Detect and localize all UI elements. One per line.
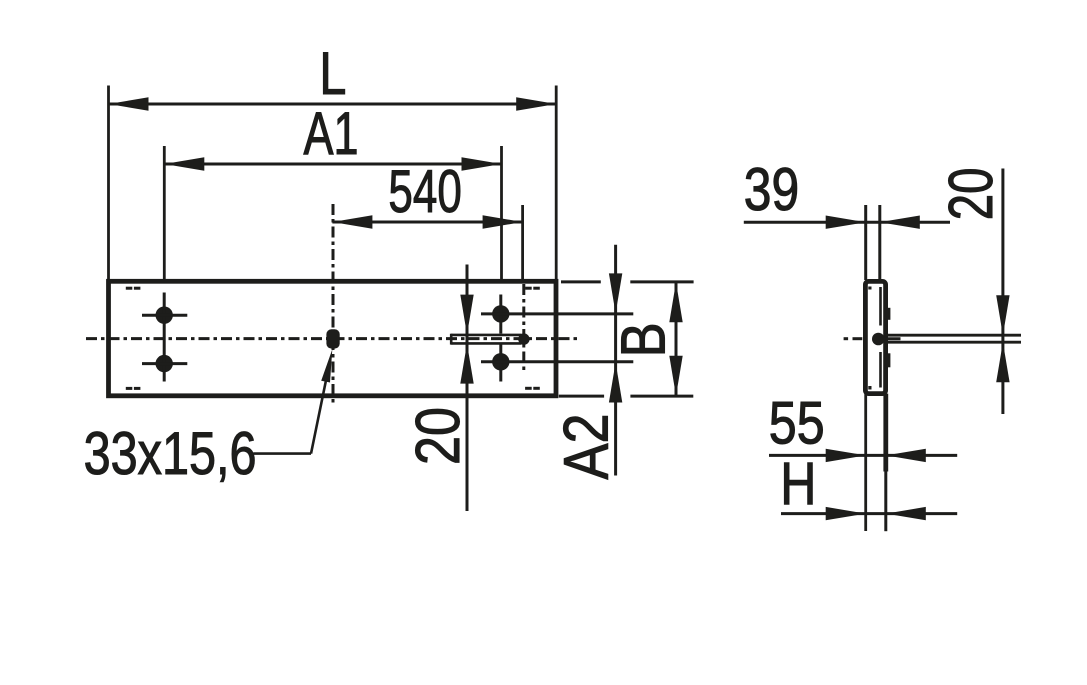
side inner edge lower	[879, 352, 882, 388]
crosshair bottom-right hole horizontal extended	[481, 360, 633, 363]
crosshair bottom-left hole horizontal	[142, 362, 187, 365]
side nut bump upper	[885, 308, 890, 320]
side slot edge lower	[884, 341, 1021, 344]
vertical centerline slot center	[332, 204, 335, 403]
arrowhead 540 right	[483, 215, 523, 228]
arrowhead 540 left	[332, 215, 372, 228]
slot right end hole	[518, 333, 529, 344]
arrowhead A2 lower	[609, 363, 622, 403]
dimension line L	[109, 103, 557, 106]
crosshair top-right hole horizontal extended	[481, 312, 633, 315]
slot left end	[450, 334, 453, 345]
center slot mark	[326, 329, 339, 348]
svg-text:33x15,6: 33x15,6	[84, 420, 257, 487]
horizontal centerline	[86, 337, 579, 340]
dimension line H	[781, 512, 957, 515]
svg-text:A2: A2	[551, 414, 621, 480]
vertical centerline slot right end	[522, 284, 525, 373]
extension line 540 right	[521, 205, 524, 279]
plate outline front view	[109, 281, 557, 396]
extension line B top	[561, 280, 694, 283]
leader arrowhead	[321, 349, 332, 382]
svg-text:L: L	[319, 40, 346, 107]
crosshair left holes vertical	[163, 293, 166, 382]
dimension line A2	[614, 245, 617, 476]
leader line 33x15,6 horizontal	[254, 452, 312, 455]
side profile outline	[865, 281, 885, 393]
side inner tick upper	[868, 287, 871, 290]
slot bottom edge	[451, 342, 521, 345]
arrowhead 20 front lower	[460, 344, 473, 384]
svg-text:20: 20	[937, 168, 1006, 221]
arrowhead 20 front upper	[460, 295, 473, 335]
dimension line 39	[744, 221, 950, 224]
side nut bump lower	[885, 353, 890, 367]
arrowhead L left	[109, 97, 149, 110]
svg-text:20: 20	[404, 407, 473, 465]
svg-text:540: 540	[388, 158, 461, 225]
svg-text:B: B	[610, 322, 679, 357]
dimension line 55	[769, 454, 957, 457]
extension line A1 left	[163, 146, 166, 279]
dimension line 20 front	[466, 265, 469, 512]
hidden edge dashes top-right	[525, 287, 540, 290]
arrowhead H right	[886, 507, 926, 520]
crosshair top-left hole horizontal	[142, 314, 187, 317]
side inner tick lower	[868, 386, 871, 390]
side lower left line	[864, 394, 867, 531]
crosshair right holes vertical lower	[499, 345, 502, 382]
arrowhead 20 side upper	[996, 295, 1009, 335]
side slot edge upper	[884, 334, 1021, 337]
extension line L right	[555, 86, 558, 280]
extension line 39 left	[864, 205, 867, 280]
svg-text:A1: A1	[304, 100, 359, 167]
dimension line 20 side	[1001, 169, 1004, 415]
extension line A1 right	[500, 146, 503, 279]
hole bottom-right	[492, 353, 509, 370]
dimension line B	[675, 282, 678, 396]
hidden edge dashes bottom-left	[126, 387, 141, 390]
arrowhead 20 side lower	[996, 342, 1009, 382]
slot top edge	[451, 334, 521, 337]
hole top-right	[492, 305, 509, 322]
extension line 39 right	[878, 205, 881, 280]
hole top-left	[156, 307, 173, 324]
side centerline dashes	[844, 337, 901, 340]
side tab thin extension	[884, 472, 887, 532]
arrowhead A2 upper	[609, 273, 622, 313]
arrowhead L right	[516, 97, 556, 110]
dimension line A1	[164, 163, 501, 166]
svg-text:55: 55	[769, 390, 825, 457]
arrowhead A1 right	[462, 157, 502, 170]
side tab thick line	[883, 394, 888, 472]
side center boss	[872, 333, 885, 346]
extension line L left	[107, 86, 110, 280]
hole bottom-left	[156, 355, 173, 372]
hidden edge dashes bottom-right	[525, 387, 540, 390]
arrowhead B lower	[669, 356, 682, 396]
svg-text:H: H	[780, 451, 816, 518]
arrowhead 55 right	[886, 449, 926, 462]
arrowhead 39 right	[880, 216, 920, 229]
arrowhead 55 left	[826, 449, 866, 462]
extension line B bottom	[559, 395, 694, 398]
crosshair right holes vertical upper	[499, 295, 502, 334]
side inner edge upper	[879, 287, 882, 326]
arrowhead 39 left	[826, 216, 866, 229]
dimension line 540	[332, 221, 522, 224]
leader line 33x15,6 diagonal	[311, 373, 328, 454]
arrowhead A1 left	[164, 157, 204, 170]
svg-text:39: 39	[744, 156, 799, 223]
arrowhead B upper	[669, 282, 682, 322]
arrowhead H left	[826, 507, 866, 520]
hidden edge dashes top-left	[126, 287, 141, 290]
